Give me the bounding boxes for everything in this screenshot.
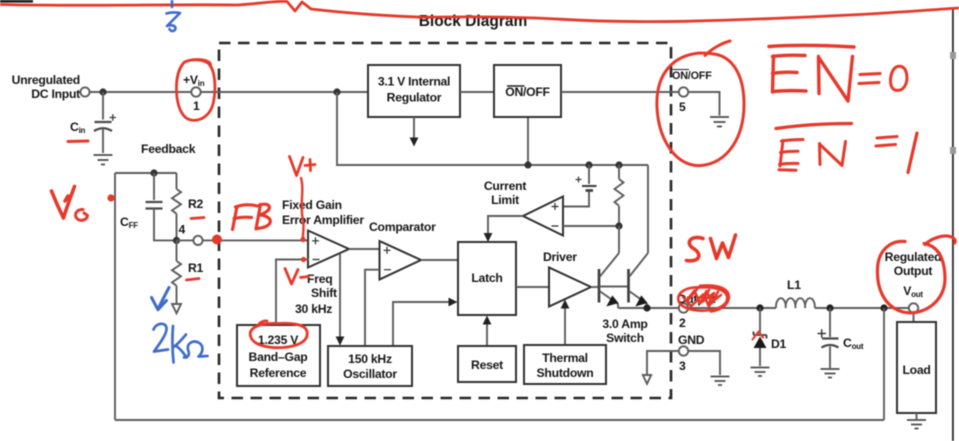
red dot on feedback wire	[107, 194, 114, 201]
pin 4 open circle	[193, 236, 202, 245]
wire gnd pin right to earth	[688, 351, 720, 375]
svg-text:Switch: Switch	[606, 331, 644, 345]
frame border right	[950, 9, 956, 441]
red dot FB wire crossing	[212, 235, 222, 245]
svg-text:Current: Current	[484, 179, 526, 193]
svg-text:Output: Output	[894, 264, 933, 278]
wire Vin pin to regulator	[201, 91, 368, 93]
wire load to ground	[916, 413, 918, 419]
svg-text:Shift: Shift	[311, 286, 337, 300]
wire inductor to output node	[815, 307, 909, 309]
red underline Cin	[68, 140, 88, 144]
wire feedback bottom run	[115, 419, 884, 421]
svg-text:3.0 Amp: 3.0 Amp	[602, 317, 647, 331]
svg-text:3: 3	[679, 359, 686, 373]
output terminal Vout	[909, 303, 918, 312]
pin 3 GND	[679, 346, 688, 373]
red note V-	[285, 269, 309, 285]
IC dashed boundary box	[219, 43, 671, 398]
ground arrow internal	[643, 375, 651, 384]
svg-text:DC Input: DC Input	[31, 87, 80, 101]
red note EN=0 zero	[890, 66, 906, 90]
load box	[897, 322, 936, 413]
reset box	[458, 346, 516, 382]
svg-text:Regulated: Regulated	[885, 250, 942, 264]
svg-text:Freq: Freq	[307, 272, 332, 286]
pin 1 +Vin	[183, 73, 205, 113]
red note EN=0 letter N	[819, 57, 853, 102]
label Unregulated DC Input	[12, 73, 81, 101]
red note SW	[687, 235, 736, 261]
op-amp error amplifier	[308, 231, 349, 268]
wire gnd pin left to internal ground	[647, 351, 679, 374]
node junction rail ON/OFF	[524, 161, 531, 168]
red note EN=0 equals	[859, 74, 880, 84]
svg-text:Thermal: Thermal	[542, 351, 588, 365]
red stroke V+ to error amp input	[301, 178, 304, 238]
red note EN=0 letter E	[773, 55, 807, 92]
svg-text:L1: L1	[787, 278, 801, 292]
inductor L1	[776, 278, 815, 308]
latch U3	[458, 242, 516, 315]
svg-text:Latch: Latch	[471, 271, 502, 285]
node junction rail resistor	[615, 161, 622, 168]
svg-text:Driver: Driver	[543, 250, 577, 264]
svg-text:Regulator: Regulator	[387, 91, 442, 105]
ground for pin 5	[710, 117, 729, 127]
wire oscillator to latch	[393, 298, 458, 346]
red oval around 1.235V	[250, 321, 307, 348]
band-gap reference box	[237, 325, 320, 386]
wire pin2 to inductor	[688, 307, 776, 309]
red underline R2	[191, 218, 204, 219]
svg-text:Shutdown: Shutdown	[537, 366, 594, 380]
svg-text:R1: R1	[188, 261, 204, 275]
blue arrow down	[152, 288, 170, 310]
capacitor CFF	[146, 173, 177, 240]
red note EN=1 letter E	[779, 140, 803, 171]
capacitor Cin	[94, 92, 116, 153]
svg-text:ON/OFF: ON/OFF	[672, 70, 712, 82]
wire terminal to load	[913, 313, 915, 322]
ground for pin 3	[711, 377, 730, 386]
svg-text:2: 2	[679, 316, 686, 330]
wire arrow below regulator	[410, 117, 419, 147]
red note EN=1 equals	[876, 137, 897, 147]
wire input to Vin pin	[90, 91, 191, 93]
resistor R1	[172, 240, 181, 303]
node junction D1 tap	[756, 304, 763, 311]
thermal shutdown box	[524, 345, 606, 384]
wire feedback tap down	[883, 308, 885, 420]
svg-text:Feedback: Feedback	[141, 142, 196, 156]
wire thermal shutdown to driver	[561, 300, 570, 346]
svg-text:3.1 V Internal: 3.1 V Internal	[378, 75, 450, 89]
svg-text:ON/OFF: ON/OFF	[505, 85, 550, 99]
wire CL output to latch top	[484, 216, 523, 242]
wire latch to driver	[516, 286, 549, 288]
ground arrow below R1	[172, 304, 181, 313]
ON/OFF logic box	[494, 65, 561, 117]
svg-text:Error Amplifier: Error Amplifier	[282, 213, 364, 227]
label 3.0 Amp Switch	[602, 317, 647, 345]
svg-text:Reference: Reference	[250, 366, 307, 380]
node junction FB divider	[173, 237, 180, 244]
red dot at error amp minus	[301, 257, 306, 262]
resistor current sense	[615, 165, 624, 226]
wire regulator to ON/OFF block	[460, 91, 494, 93]
red pen top scribble line	[0, 1, 959, 21]
diode D1	[754, 308, 787, 366]
red underline R1	[187, 279, 200, 281]
node junction internal rail tap	[333, 88, 340, 95]
svg-text:1: 1	[193, 99, 200, 113]
frame bar top-left	[0, 0, 33, 3]
red ellipse around Vin pin	[176, 60, 214, 121]
wire ON/OFF box to pin 5	[561, 91, 679, 93]
node: input terminal	[80, 87, 89, 96]
oscillator box	[328, 346, 412, 386]
wire error amp out to comparator	[349, 248, 380, 250]
driver amplifier	[543, 250, 591, 307]
red scribble over Output pin	[678, 285, 729, 311]
svg-text:Load: Load	[902, 363, 930, 377]
transistor Q2	[629, 165, 649, 308]
wire oscillator to comparator minus	[365, 270, 380, 346]
svg-text:Unregulated: Unregulated	[12, 73, 80, 87]
red note FB	[233, 204, 271, 229]
svg-text:Limit: Limit	[491, 193, 519, 207]
red note EN=1 one	[908, 133, 917, 173]
svg-text:Fixed Gain: Fixed Gain	[282, 198, 342, 212]
svg-text:GND: GND	[678, 333, 705, 347]
pin 5 ON/OFF	[672, 70, 712, 115]
label Regulated Output Vout	[885, 250, 942, 299]
pin 2 output	[677, 292, 716, 330]
red note EN=1 letter N	[820, 142, 846, 166]
wire feedback left leg	[114, 173, 116, 420]
red circle around ON/OFF pin5	[657, 41, 744, 166]
wire FB node to pin 4	[177, 239, 194, 241]
node junction rail battery	[585, 161, 592, 168]
wire FB pin to error amp	[203, 239, 309, 241]
red tick on D1	[753, 332, 764, 340]
op-amp comparator	[369, 220, 436, 280]
node junction emitter Q2	[643, 304, 650, 311]
blue note 2kOhm	[154, 324, 208, 363]
svg-text:5: 5	[679, 100, 686, 114]
wire error amp minus to reference	[276, 260, 309, 326]
wire feedback network top	[115, 172, 177, 174]
resistor R2	[172, 173, 181, 240]
wire pin5 to ground	[688, 92, 719, 116]
label Fixed Gain Error Amplifier	[282, 198, 364, 227]
svg-text:30 kHz: 30 kHz	[295, 302, 332, 316]
red dot at error amp plus	[300, 237, 305, 242]
svg-text:Oscillator: Oscillator	[343, 367, 397, 381]
ground for D1	[751, 368, 770, 377]
red note Vo	[52, 187, 88, 221]
red note EN=0 overline	[769, 45, 854, 47]
red note V+	[290, 157, 316, 176]
blue mark top	[167, 0, 181, 31]
wire comparator out to latch	[421, 259, 458, 261]
ground for Cin	[94, 155, 113, 165]
svg-text:R2: R2	[188, 197, 204, 211]
node junction sense resistor bottom	[615, 222, 622, 229]
regulator U-internal 3.1V box	[368, 65, 460, 117]
ground for Cout	[821, 369, 840, 378]
transistor Q1	[591, 226, 629, 308]
wire freq shift to oscillator	[336, 254, 345, 346]
node junction feedback tap	[880, 304, 887, 311]
svg-text:Comparator: Comparator	[369, 220, 436, 234]
svg-text:Reset: Reset	[471, 358, 503, 372]
node junction Cin tap	[99, 88, 106, 95]
capacitor Cout	[818, 308, 864, 368]
op-amp current limit	[484, 179, 563, 236]
red circle around Regulated Output	[877, 236, 955, 313]
wire reset to latch	[483, 316, 492, 347]
battery offset current limit	[563, 165, 597, 207]
node junction Cout tap	[826, 304, 833, 311]
wire CL minus input to sense node	[563, 225, 619, 227]
wire switch emitter to pin 2	[618, 307, 679, 309]
node junction CFF top	[150, 169, 157, 176]
svg-text:150 kHz: 150 kHz	[348, 352, 392, 366]
svg-text:D1: D1	[771, 337, 787, 351]
svg-text:Band–Gap: Band–Gap	[249, 350, 308, 364]
ground for load	[907, 420, 926, 429]
red note EN=1 overline	[776, 124, 852, 129]
svg-text:4: 4	[179, 223, 186, 237]
wire internal supply rail	[337, 92, 648, 165]
label Freq Shift 30 kHz	[295, 272, 337, 316]
